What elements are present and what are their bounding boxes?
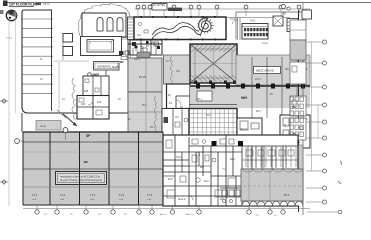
vertical x59 bbox=[58, 62, 60, 112]
svg-text:#5.2: #5.2 bbox=[150, 126, 155, 129]
left edge tick middle bbox=[0, 99, 8, 103]
svg-text:MEZZ ABOVE: MEZZ ABOVE bbox=[256, 69, 274, 73]
gray band verticals bbox=[252, 57, 297, 118]
stair box top right bbox=[302, 3, 312, 20]
west rooms upper row bbox=[83, 76, 109, 96]
heavy wall with columns bbox=[190, 84, 310, 89]
left edge tick upper bbox=[0, 10, 4, 14]
top box above lobby bbox=[152, 4, 167, 11]
small rooms below corridor bbox=[162, 109, 190, 136]
stray mark a bbox=[340, 161, 341, 165]
revision cloud west of rooms bbox=[72, 78, 76, 120]
lobby column ticks bbox=[140, 16, 216, 40]
svg-text:17-5: 17-5 bbox=[147, 193, 153, 197]
svg-text:17-1: 17-1 bbox=[32, 193, 38, 197]
bottom grid bubbles bbox=[35, 205, 285, 214]
right column fixtures bbox=[290, 97, 304, 137]
south rooms outer bbox=[163, 135, 298, 206]
stair block lower bbox=[63, 47, 73, 56]
west parking stall lines bbox=[22, 19, 53, 93]
svg-text:105: 105 bbox=[84, 90, 89, 93]
winding path inner bbox=[152, 26, 200, 38]
parking top border bbox=[23, 132, 163, 142]
se room stripes bbox=[246, 147, 296, 167]
gray band top strip bbox=[236, 55, 310, 85]
mech pipes vertical bbox=[233, 18, 241, 41]
svg-text:#4.2: #4.2 bbox=[204, 180, 209, 183]
svg-text:WC: WC bbox=[200, 166, 204, 169]
bottom dim texts bbox=[44, 213, 277, 217]
svg-text:147.1: 147.1 bbox=[196, 98, 203, 101]
left dimension line bbox=[6, 12, 12, 206]
gray room west of corridor bbox=[128, 58, 162, 92]
terrace top cloud bbox=[243, 169, 303, 172]
west parking aisle line x51 bbox=[51, 10, 53, 111]
top dimension line bbox=[134, 8, 310, 10]
west lower wall bbox=[21, 113, 23, 132]
bottom right dim line bbox=[307, 210, 342, 214]
facade arched windows bbox=[97, 18, 123, 32]
stair block upper bbox=[63, 34, 73, 43]
svg-text:#5.1: #5.1 bbox=[142, 104, 147, 107]
revision cloud around facade bbox=[78, 4, 131, 36]
svg-text:stall: stall bbox=[32, 198, 36, 201]
left parking bubble bbox=[15, 139, 23, 144]
svg-text:17-4: 17-4 bbox=[119, 193, 125, 197]
right gray lower strip bbox=[290, 145, 303, 205]
terrace scallop edge bbox=[242, 201, 303, 205]
courtyard inner rect bbox=[87, 40, 114, 53]
chiller unit bbox=[242, 24, 268, 40]
parking column lines bbox=[23, 132, 163, 205]
south room fixtures bbox=[166, 139, 294, 200]
svg-text:MECH: MECH bbox=[240, 128, 247, 131]
gray band mid bbox=[190, 85, 310, 108]
svg-text:#7.1: #7.1 bbox=[166, 60, 171, 63]
svg-text:CU-1: CU-1 bbox=[230, 18, 236, 21]
parking area fill bbox=[23, 132, 163, 205]
svg-text:be part of future airport impr: be part of future airport improvements bbox=[60, 179, 103, 182]
wc fixtures bottom center bbox=[220, 188, 242, 203]
svg-text:17-2: 17-2 bbox=[60, 193, 66, 197]
svg-text:#7.20: #7.20 bbox=[139, 75, 146, 79]
black column sw-b bbox=[238, 141, 243, 146]
svg-text:PLAN NOTES: PLAN NOTES bbox=[150, 4, 166, 7]
svg-text:CH-1: CH-1 bbox=[250, 20, 256, 23]
svg-text:#4.6: #4.6 bbox=[168, 178, 173, 181]
south room labels bbox=[168, 156, 235, 201]
south rooms extra walls bbox=[163, 146, 298, 206]
west rooms lower row bbox=[77, 96, 109, 120]
room fixtures se of band bbox=[280, 115, 310, 148]
dark cluster right of courtyard bbox=[119, 51, 129, 64]
svg-text:stall: stall bbox=[90, 198, 94, 201]
planter gray block bbox=[36, 121, 61, 131]
x-braced hall bbox=[182, 44, 287, 84]
title 1ST FLOOR PLAN bbox=[3, 1, 51, 7]
L corridor bbox=[167, 84, 191, 109]
svg-text:1/8"=1': 1/8"=1' bbox=[43, 4, 51, 6]
lobby outline bbox=[134, 17, 226, 40]
column line over note box bbox=[79, 172, 81, 185]
svg-text:MATL: MATL bbox=[112, 65, 120, 69]
svg-text:104: 104 bbox=[97, 101, 102, 104]
walk line y61 bbox=[54, 60, 89, 62]
mech pipe rack line bbox=[226, 17, 290, 19]
right wall double line bbox=[299, 10, 304, 215]
svg-text:Area 4: Area 4 bbox=[186, 213, 193, 216]
right column rooms bbox=[290, 20, 306, 140]
svg-text:WC: WC bbox=[285, 68, 289, 71]
ramp arrow bbox=[57, 110, 77, 126]
top small legend bbox=[150, 4, 182, 11]
right dim verticals bbox=[312, 42, 319, 171]
toilet block extra marks bbox=[128, 41, 162, 58]
north arrow bbox=[6, 10, 16, 21]
left edge tick lower bbox=[0, 180, 8, 184]
stair west of lobby bbox=[128, 17, 135, 40]
sheet top border line bbox=[4, 2, 371, 4]
stray mark b bbox=[338, 181, 341, 184]
louver box bbox=[287, 19, 298, 32]
svg-text:MC: MC bbox=[120, 60, 124, 64]
parking top bubble bbox=[63, 128, 68, 141]
restoration note box bbox=[56, 172, 107, 185]
mech unit small bbox=[273, 16, 283, 26]
winding path outer bbox=[152, 23, 199, 35]
svg-text:stall: stall bbox=[119, 198, 123, 201]
top grid bubbles bbox=[136, 5, 301, 16]
terrace gray bbox=[241, 169, 303, 208]
svg-text:103: 103 bbox=[81, 103, 86, 106]
courtyard room bbox=[81, 37, 122, 56]
svg-text:stall: stall bbox=[60, 198, 64, 201]
tiled room bbox=[189, 105, 237, 138]
facade building outline bbox=[82, 13, 126, 37]
svg-text:1ST FLOOR PLAN: 1ST FLOOR PLAN bbox=[9, 2, 38, 6]
south rooms walls bbox=[163, 135, 298, 206]
mech yard boundary bbox=[236, 12, 303, 40]
svg-text:ST: ST bbox=[292, 106, 296, 109]
svg-text:#8.1: #8.1 bbox=[256, 110, 261, 113]
fence line west bbox=[15, 10, 17, 113]
white box under x hall bbox=[197, 91, 212, 101]
west parking aisle line x63 bbox=[62, 34, 64, 60]
svg-text:Area 4: Area 4 bbox=[160, 213, 167, 216]
vent circles bbox=[282, 5, 291, 17]
wall x128 lower bbox=[128, 40, 131, 114]
west parking outline bbox=[22, 10, 130, 113]
svg-text:ramp: ramp bbox=[40, 124, 46, 128]
svg-text:WC: WC bbox=[135, 50, 139, 52]
small legend box bbox=[94, 62, 120, 71]
svg-text:#T.2: #T.2 bbox=[284, 193, 290, 197]
svg-text:CO: CO bbox=[175, 116, 179, 119]
spiral hatch bbox=[198, 17, 214, 33]
svg-text:102: 102 bbox=[176, 70, 181, 73]
svg-text:MF: MF bbox=[84, 160, 88, 164]
right leader bubbles bbox=[306, 40, 327, 204]
svg-text:#2.1: #2.1 bbox=[230, 158, 235, 161]
room with equipment sw of band bbox=[237, 118, 262, 146]
gray corridor upper bbox=[164, 55, 190, 86]
facade base double line bbox=[80, 37, 135, 39]
porch wall line bbox=[105, 70, 107, 76]
black column sw-a bbox=[212, 141, 217, 146]
lobby small marks bbox=[137, 23, 148, 38]
parking mid lines bbox=[23, 152, 163, 205]
svg-text:Area 4: Area 4 bbox=[178, 198, 186, 201]
label box in gray band bbox=[254, 67, 281, 74]
svg-text:107.3: 107.3 bbox=[255, 78, 262, 81]
keynote 606 text bbox=[88, 73, 100, 77]
mech labels bbox=[250, 13, 287, 23]
svg-text:GENERAL: GENERAL bbox=[97, 65, 112, 69]
svg-text:17-3: 17-3 bbox=[90, 193, 96, 197]
bottom dimension line bbox=[23, 208, 310, 210]
spiral terrace bbox=[199, 18, 212, 36]
svg-text:stall: stall bbox=[147, 198, 151, 201]
svg-text:#3.2: #3.2 bbox=[206, 114, 211, 117]
svg-text:WN: WN bbox=[241, 96, 247, 100]
gray room west lower bbox=[128, 92, 162, 135]
svg-text:EF: EF bbox=[283, 13, 287, 16]
svg-text:104.1: 104.1 bbox=[134, 58, 141, 61]
parking stall labels bbox=[32, 193, 153, 201]
scattered keynotes bbox=[40, 18, 308, 131]
svg-text:CU-2: CU-2 bbox=[262, 42, 268, 45]
toilet rooms block bbox=[130, 40, 162, 55]
